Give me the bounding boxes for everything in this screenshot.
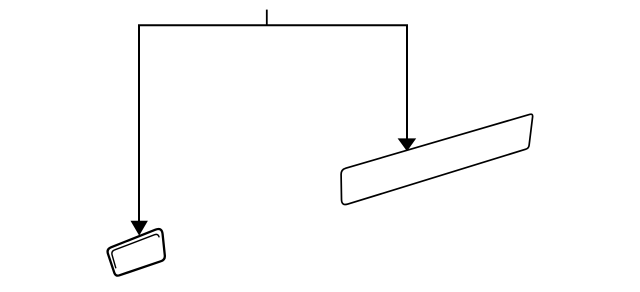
part: side marker lamp [108,229,165,276]
node 1 tick [266,10,268,26]
arrowhead right [398,138,417,151]
rim line of lamp [112,234,159,268]
wire leader bracket [139,25,407,221]
part: body side molding strip [341,114,533,204]
arrowhead left [131,221,148,236]
